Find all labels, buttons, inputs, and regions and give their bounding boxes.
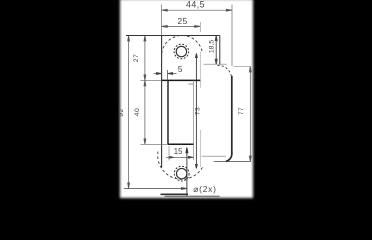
svg-text:⌀(2x): ⌀(2x) xyxy=(193,184,216,194)
bottom hole outer circle xyxy=(174,166,189,181)
bottom rounded end dashed arc xyxy=(158,152,203,180)
top rounded end dashed arc xyxy=(162,35,203,58)
svg-text:15: 15 xyxy=(174,147,183,156)
extension line right for 25 xyxy=(199,22,201,32)
small step line near cutout top right xyxy=(189,83,194,85)
svg-text:92: 92 xyxy=(118,108,125,117)
leader underline for hole callout xyxy=(165,195,220,197)
dimension 40 line xyxy=(144,80,146,144)
dimension 5 lines with outside arrows xyxy=(154,72,177,74)
thick dark segment under plate xyxy=(161,193,189,195)
plate left edge xyxy=(161,36,163,168)
latch cutout top edge xyxy=(162,79,201,81)
svg-text:25: 25 xyxy=(177,16,187,26)
svg-text:40: 40 xyxy=(134,108,141,117)
svg-text:73: 73 xyxy=(195,107,202,115)
15 left extension line xyxy=(168,146,170,161)
latch cutout right edge (faint) xyxy=(193,80,195,160)
cutout top extension line left xyxy=(141,79,162,81)
extension line right of 15 toward side view xyxy=(202,155,227,157)
side view left edge / 18,5 dim line xyxy=(215,36,217,65)
dimension 15 line with arrows xyxy=(166,156,194,158)
dimension 25 line xyxy=(162,25,201,27)
dimension 73 line xyxy=(196,54,198,169)
dimension 77 line xyxy=(249,67,251,162)
side view bend shown as dashed arc xyxy=(218,65,232,75)
extension line right for 44,5 xyxy=(231,5,233,67)
side view lip lower edge xyxy=(226,76,232,162)
leader centerline through bottom hole xyxy=(186,148,188,197)
top hole inner circle xyxy=(176,46,186,56)
dimension 27 line xyxy=(144,36,146,81)
bottom edge of side view with extension for 77 xyxy=(214,161,251,163)
latch cutout bottom edge xyxy=(168,143,194,145)
svg-text:44,5: 44,5 xyxy=(186,0,205,9)
dimension 44,5 line xyxy=(162,9,232,11)
dimension 92 line xyxy=(128,36,130,189)
svg-text:5: 5 xyxy=(178,65,183,74)
extension of cutout left edge up for 5 xyxy=(167,70,169,80)
latch cutout left edge xyxy=(167,80,169,144)
extension line left above plate xyxy=(161,5,163,36)
svg-text:27: 27 xyxy=(133,54,140,63)
bottom extension line with arrow to centerline xyxy=(124,188,187,190)
plate top edge with left extension xyxy=(126,35,220,37)
svg-text:18,5: 18,5 xyxy=(208,40,215,53)
cutout bottom extension line left xyxy=(141,143,168,145)
18,5 extension line xyxy=(204,63,227,65)
plate right edge (faint) xyxy=(199,52,201,88)
svg-text:77: 77 xyxy=(238,107,245,115)
bottom hole inner circle xyxy=(177,168,187,178)
extension line top for 77 xyxy=(234,66,251,68)
side view right edge xyxy=(219,36,221,65)
top hole outer circle xyxy=(174,44,189,59)
